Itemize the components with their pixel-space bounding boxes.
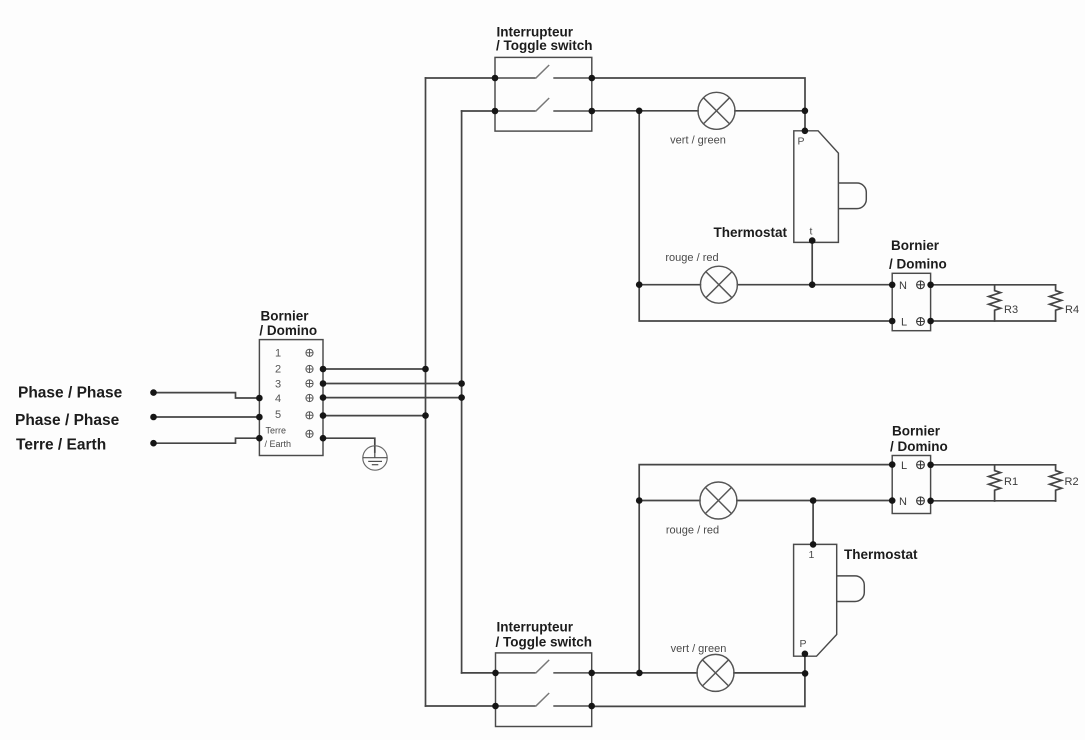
svg-text:2: 2 bbox=[275, 364, 281, 376]
svg-text:vert / green: vert / green bbox=[670, 135, 726, 147]
junction terre terminal right bbox=[320, 435, 327, 442]
wire bottom switch upper pole left bbox=[462, 672, 496, 674]
ground bar long bbox=[363, 457, 387, 459]
svg-text:Bornier: Bornier bbox=[891, 238, 940, 253]
svg-text:P: P bbox=[798, 136, 805, 148]
junction phase 1 wire start bbox=[150, 389, 157, 396]
wire bottom switch upper pole right to lamp bbox=[592, 672, 697, 674]
junction bornier2 L right terminal bbox=[927, 462, 934, 469]
bottom switch pole 2 contacts bbox=[496, 705, 592, 707]
terminal screw 5 bbox=[306, 412, 313, 419]
junction bornier2 N left terminal bbox=[889, 497, 896, 504]
junction terminal 5 right bbox=[320, 412, 327, 419]
svg-text:Terre / Earth: Terre / Earth bbox=[16, 437, 106, 454]
svg-text:Terre: Terre bbox=[266, 426, 287, 436]
bornier domino top-right block bbox=[892, 273, 930, 330]
junction terre terminal left bbox=[256, 435, 263, 442]
svg-text:P: P bbox=[800, 638, 807, 650]
junction terre wire start bbox=[150, 440, 157, 447]
lamp cross vert/green top bbox=[703, 98, 729, 124]
wire rouge/red row to N terminal bbox=[639, 284, 892, 286]
resistor R3 bbox=[989, 285, 1001, 321]
svg-text:rouge / red: rouge / red bbox=[665, 252, 718, 264]
junction thermostat bottom pin t bbox=[809, 237, 816, 244]
wire bornier row4 to V2 bbox=[323, 397, 462, 399]
terminal screw 4 bbox=[306, 394, 313, 401]
thermostat bottom knob bbox=[837, 576, 865, 602]
ground circle bbox=[363, 446, 387, 470]
wire vertical bus V2 (row3/row4 to both switches) bbox=[461, 111, 463, 673]
top switch outline box bbox=[495, 57, 592, 131]
wire phase 2 to terminal 5 bbox=[154, 416, 260, 418]
junction thermostat2 pin1 drop with rouge/red row bbox=[810, 497, 817, 504]
resistor R1 bbox=[989, 465, 1001, 501]
wire bornier row2 to V1 bbox=[323, 368, 426, 370]
svg-text:/ Domino: / Domino bbox=[889, 257, 947, 272]
junction bornier2 N right terminal bbox=[927, 498, 934, 505]
top switch pole 1 contacts bbox=[495, 77, 592, 79]
bottom switch outline box bbox=[496, 653, 592, 727]
interrupteur bottom switch box bbox=[496, 653, 592, 727]
junction row3 on bus V2 bbox=[458, 380, 465, 387]
junction bornier L right terminal bbox=[927, 318, 934, 325]
bottom switch pole 1 blade bbox=[536, 660, 550, 673]
junction rouge/red row tap on bus V3a bbox=[636, 281, 643, 288]
lamp rouge/red top bbox=[700, 266, 737, 303]
screw L bottom bornier bbox=[917, 461, 925, 469]
terminal screw terre bbox=[306, 430, 313, 437]
junction thermostat2 bottom pin P bbox=[802, 651, 809, 658]
svg-text:Interrupteur: Interrupteur bbox=[497, 620, 574, 635]
wire rouge/red row to thermostat 1 bbox=[812, 501, 814, 545]
svg-text:/ Toggle switch: / Toggle switch bbox=[496, 38, 593, 53]
svg-text:R2: R2 bbox=[1065, 476, 1079, 488]
junction top switch pole2 left terminal bbox=[492, 108, 499, 115]
wire top switch upper pole right to thermostat P bbox=[592, 78, 805, 131]
wire N row to resistors R3 R4 bbox=[931, 284, 1056, 286]
svg-text:Thermostat: Thermostat bbox=[844, 547, 918, 562]
junction top switch pole2 right terminal bbox=[589, 108, 596, 115]
wire top lamp to P node bbox=[735, 110, 805, 112]
junction terminal 4 left bbox=[256, 395, 263, 402]
lamp vert/green top bbox=[698, 92, 735, 129]
top switch pole 2 blade bbox=[536, 98, 550, 111]
lamp cross rouge/red bottom bbox=[705, 487, 731, 513]
bottom switch pole 2 blade bbox=[536, 693, 550, 706]
svg-text:Phase / Phase: Phase / Phase bbox=[18, 385, 123, 402]
resistor R4 bbox=[1050, 285, 1062, 321]
svg-text:5: 5 bbox=[275, 409, 281, 421]
junction row4 on bus V2 bbox=[458, 394, 465, 401]
junction thermostat2 top pin 1 bbox=[810, 541, 817, 548]
svg-text:Phase / Phase: Phase / Phase bbox=[15, 412, 120, 429]
wire L row bottom-right bornier to bus V3b down to vert/green bbox=[639, 465, 892, 673]
junction terminal 2 right bbox=[320, 366, 327, 373]
wire bornier row5 to V1 bbox=[323, 415, 426, 417]
svg-text:L: L bbox=[901, 460, 907, 472]
svg-text:4: 4 bbox=[275, 393, 281, 405]
wire top switch upper pole left bbox=[426, 77, 496, 79]
lamp cross vert/green bottom bbox=[702, 660, 728, 686]
lamp circle rouge/red bottom bbox=[700, 482, 737, 519]
wire thermostat P down and left to lower pole bbox=[592, 654, 805, 707]
svg-text:L: L bbox=[901, 317, 907, 329]
terminal screw 2 bbox=[306, 365, 313, 372]
thermostat top bbox=[794, 131, 867, 243]
top switch pole 1 blade bbox=[536, 65, 550, 78]
top switch pole 2 contacts bbox=[495, 110, 592, 112]
svg-text:/ Domino: / Domino bbox=[259, 323, 317, 338]
thermostat bottom body bbox=[794, 544, 837, 656]
junction t drop with rouge/red row bbox=[809, 281, 816, 288]
junction row2 on bus V1 bbox=[422, 366, 429, 373]
junction vert/green bottom row with bus V3b bbox=[636, 670, 643, 677]
wire bottom N row to resistors R1 R2 bbox=[931, 500, 1056, 502]
ground stem bbox=[374, 446, 376, 458]
svg-text:/ Earth: / Earth bbox=[265, 439, 292, 449]
bornier domino bottom-right block bbox=[892, 456, 930, 514]
junction bottom switch pole1 left terminal bbox=[492, 670, 499, 677]
svg-text:Bornier: Bornier bbox=[892, 424, 941, 439]
svg-text:/ Domino: / Domino bbox=[890, 439, 948, 454]
svg-text:/ Toggle switch: / Toggle switch bbox=[496, 635, 593, 650]
lamp circle rouge/red top bbox=[700, 266, 737, 303]
junction phase 2 wire start bbox=[150, 414, 157, 421]
svg-text:vert / green: vert / green bbox=[671, 643, 727, 655]
svg-text:N: N bbox=[899, 280, 907, 292]
svg-text:N: N bbox=[899, 496, 907, 508]
junction top switch pole1 left terminal bbox=[492, 75, 499, 82]
screw N top bornier bbox=[917, 281, 925, 289]
junction rouge/red bottom tap on bus V3b bbox=[636, 497, 643, 504]
wire bottom lamp to P node bbox=[734, 672, 805, 674]
thermostat bottom bbox=[794, 544, 865, 656]
junction bornier N left terminal bbox=[889, 282, 896, 289]
terminal screw 3 bbox=[306, 380, 313, 387]
wire vertical bus V1 (row2/row5 to both switches) bbox=[425, 78, 427, 706]
svg-text:t: t bbox=[810, 226, 813, 238]
ground bar middle bbox=[368, 460, 382, 462]
wire L row to resistors R3 R4 bbox=[931, 320, 1056, 322]
lamp vert/green bottom bbox=[697, 654, 734, 691]
thermostat top body bbox=[794, 131, 839, 243]
lamp rouge/red bottom bbox=[700, 482, 737, 519]
wire bus V3a down to L row of top-right bornier bbox=[639, 111, 892, 321]
wire terre to earth terminal bbox=[154, 438, 260, 443]
bottom switch pole 1 contacts bbox=[496, 672, 592, 674]
svg-text:1: 1 bbox=[809, 549, 815, 561]
junction vert/green bottom row with P drop bbox=[802, 670, 809, 677]
junction terminal 5 left bbox=[256, 414, 263, 421]
junction lamp row with thermostat P drop bbox=[802, 108, 809, 115]
svg-text:R4: R4 bbox=[1065, 304, 1079, 316]
svg-text:R3: R3 bbox=[1004, 304, 1018, 316]
wire earth terminal to ground symbol bbox=[323, 438, 375, 452]
terminal screw 1 bbox=[306, 349, 313, 356]
junction terminal 4 right bbox=[320, 394, 327, 401]
svg-text:3: 3 bbox=[275, 379, 281, 391]
resistor R2 bbox=[1050, 465, 1062, 501]
wire phase 1 to terminal 4 bbox=[154, 393, 260, 398]
junction vert/green row with bus V3a bbox=[636, 108, 643, 115]
thermostat top knob bbox=[838, 183, 866, 209]
screw L top bornier bbox=[917, 318, 925, 326]
junction bottom switch pole2 right terminal bbox=[588, 703, 595, 710]
screw N bottom bornier bbox=[917, 497, 925, 505]
wire top switch lower pole right to lamp bbox=[592, 110, 698, 112]
junction bornier L left terminal bbox=[889, 318, 896, 325]
junction thermostat top pin P bbox=[802, 128, 809, 135]
lamp circle vert/green bottom bbox=[697, 654, 734, 691]
ground bar short bbox=[372, 464, 379, 466]
junction bornier2 L left terminal bbox=[889, 461, 896, 468]
junction top switch pole1 right terminal bbox=[589, 75, 596, 82]
junction bottom switch pole1 right terminal bbox=[588, 670, 595, 677]
junction row5 on bus V1 bbox=[422, 412, 429, 419]
lamp cross rouge/red top bbox=[706, 272, 732, 298]
wire bottom L row to resistors R1 R2 bbox=[931, 464, 1056, 466]
wire thermostat t to rouge/red row bbox=[811, 241, 813, 285]
wire bottom switch lower pole left bbox=[426, 705, 496, 707]
junction bottom switch pole2 left terminal bbox=[492, 703, 499, 710]
wire rouge/red bottom row bbox=[639, 500, 892, 502]
ground symbol bbox=[363, 446, 388, 470]
svg-text:Thermostat: Thermostat bbox=[713, 225, 787, 240]
wire bornier row3 to V2 bbox=[323, 383, 462, 385]
interrupteur top switch box bbox=[495, 57, 592, 131]
terminal screws left block bbox=[306, 349, 313, 437]
junction terminal 3 right bbox=[320, 380, 327, 387]
svg-text:1: 1 bbox=[275, 348, 281, 360]
junction bornier N right terminal bbox=[927, 282, 934, 289]
svg-text:Bornier: Bornier bbox=[261, 309, 310, 324]
svg-text:rouge / red: rouge / red bbox=[666, 525, 719, 537]
svg-text:R1: R1 bbox=[1004, 476, 1018, 488]
lamp circle vert/green top bbox=[698, 92, 735, 129]
bornier domino left block bbox=[259, 340, 323, 456]
wire top switch lower pole left bbox=[462, 110, 495, 112]
